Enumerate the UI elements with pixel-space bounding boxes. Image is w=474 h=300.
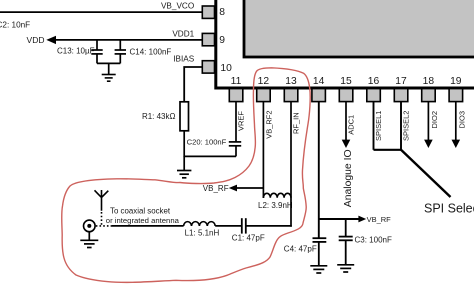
wire VDD to pin 9 <box>55 39 202 41</box>
svg-text:ADC1: ADC1 <box>346 115 355 135</box>
svg-text:C1: 47pF: C1: 47pF <box>232 234 265 243</box>
resistor R1 <box>180 102 189 131</box>
svg-text:VREF: VREF <box>236 111 245 131</box>
node VDD arrow <box>46 36 56 44</box>
node ADC1 down arrow <box>342 140 351 148</box>
svg-text:18: 18 <box>423 76 435 87</box>
inductor L1 <box>184 222 216 226</box>
svg-text:17: 17 <box>395 76 407 87</box>
op-amp U1 body outline (IC outer border) <box>216 0 474 88</box>
wire SPI diagonal <box>401 150 451 197</box>
pin 15 box <box>339 89 353 102</box>
pin 14 box <box>312 89 326 102</box>
wire pin 11 VREF to C20 <box>235 102 237 142</box>
wire socket to L1 <box>112 225 184 227</box>
svg-text:C14: 100nF: C14: 100nF <box>130 48 172 57</box>
svg-text:9: 9 <box>219 35 225 46</box>
capacitor C4 <box>313 238 327 265</box>
node DIO2 down arrow <box>424 140 433 148</box>
capacitor C3 <box>339 219 353 264</box>
pin 17 box <box>394 89 408 102</box>
wire pin 12 VB_RF2 down <box>262 102 264 198</box>
capacitor C1 <box>242 218 246 233</box>
pin 8 box <box>202 6 214 18</box>
wire pin 14 down <box>318 102 320 239</box>
bottom pin boxes 11-19 <box>229 89 462 102</box>
svg-text:SPISEL1: SPISEL1 <box>374 111 383 141</box>
svg-text:13: 13 <box>285 76 297 87</box>
svg-text:R1: 43kΩ: R1: 43kΩ <box>142 112 176 121</box>
wire VB_VCO net to pin 8 <box>0 11 202 13</box>
svg-text:To coaxial socket: To coaxial socket <box>110 207 171 216</box>
wire pin 16 SPISEL1 down <box>373 102 375 150</box>
svg-text:or integrated antenna: or integrated antenna <box>106 216 180 225</box>
wire pin 19 DIO3 down <box>455 102 457 140</box>
wire rail to VB_RF right <box>319 218 360 220</box>
svg-text:14: 14 <box>313 76 325 87</box>
IC inner gray block <box>244 0 474 57</box>
wire pin 17 SPISEL2 down <box>400 102 402 150</box>
svg-text:C2: 10nF: C2: 10nF <box>0 21 30 30</box>
svg-text:L2: 3.9nH: L2: 3.9nH <box>258 201 293 210</box>
node DIO3 down arrow <box>452 140 461 148</box>
svg-text:SPI Select: SPI Select <box>424 202 474 216</box>
ground below C13/C14 <box>102 75 116 82</box>
wire gnd rail R1/C20 <box>184 155 236 157</box>
pin 18 box <box>422 89 436 102</box>
svg-text:10: 10 <box>220 63 232 74</box>
capacitor C13 <box>91 40 102 64</box>
svg-text:12: 12 <box>258 76 270 87</box>
svg-text:VDD: VDD <box>27 35 45 45</box>
pin 11 box <box>229 89 243 102</box>
capacitor C20 <box>229 142 241 157</box>
svg-text:15: 15 <box>340 76 352 87</box>
svg-text:L1: 5.1nH: L1: 5.1nH <box>185 228 220 237</box>
wire SPISEL join <box>374 149 402 151</box>
wire L1 to C1 <box>215 225 242 227</box>
svg-text:16: 16 <box>368 76 380 87</box>
wire C1 to RF_IN net <box>246 225 292 227</box>
node VB_RF right arrow <box>358 216 366 223</box>
pin 10 box <box>202 61 214 73</box>
svg-text:19: 19 <box>450 76 462 87</box>
pin 19 box <box>449 89 463 102</box>
svg-text:VB_RF2: VB_RF2 <box>265 110 274 138</box>
pin 16 box <box>367 89 381 102</box>
svg-text:C20: 100nF: C20: 100nF <box>187 138 227 147</box>
wire pin 18 DIO2 down <box>427 102 429 140</box>
svg-text:VDD1: VDD1 <box>172 29 194 38</box>
pin 13 box <box>284 89 298 102</box>
svg-text:VB_RF: VB_RF <box>367 215 392 224</box>
ground below C3 <box>337 265 354 272</box>
inductor L2 <box>263 193 291 198</box>
wire pin 13 RF_IN down <box>290 102 292 227</box>
svg-text:8: 8 <box>219 7 225 18</box>
svg-text:DIO3: DIO3 <box>458 111 467 129</box>
svg-text:VB_VCO: VB_VCO <box>161 2 194 11</box>
svg-text:C4: 47pF: C4: 47pF <box>284 244 317 253</box>
ground below R1/C20 rail <box>177 156 191 177</box>
wire socket dotted segment <box>96 225 112 227</box>
svg-text:Analogue IO: Analogue IO <box>343 149 354 207</box>
wire antenna dotted drop <box>101 212 103 226</box>
svg-text:11: 11 <box>231 76 242 87</box>
wire VB_RF to pin12 net <box>236 187 263 189</box>
wire pin 15 ADC1 down <box>345 102 347 140</box>
svg-text:RF_IN: RF_IN <box>291 112 300 134</box>
pin 12 box <box>257 89 271 102</box>
svg-text:DIO2: DIO2 <box>430 111 439 129</box>
wire R1 bottom to gnd rail <box>183 131 185 157</box>
ground below C4 <box>310 266 327 273</box>
svg-text:C3: 100nF: C3: 100nF <box>355 236 392 245</box>
pin 9 box <box>202 33 214 45</box>
ground below socket <box>80 232 98 248</box>
svg-text:C13: 10µF: C13: 10µF <box>57 46 95 55</box>
connector X1 coax socket <box>84 220 96 232</box>
svg-text:VB_RF: VB_RF <box>203 184 229 193</box>
antenna ANT1 <box>95 190 109 211</box>
wire IBIAS pin 10 <box>184 67 201 102</box>
svg-text:IBIAS: IBIAS <box>173 55 194 64</box>
red annotation loop <box>62 68 311 283</box>
svg-text:SPISEL2: SPISEL2 <box>401 111 410 141</box>
node VB_RF left arrow <box>229 185 237 192</box>
capacitor C14 <box>115 40 126 64</box>
wire C13/C14 common <box>97 63 120 74</box>
